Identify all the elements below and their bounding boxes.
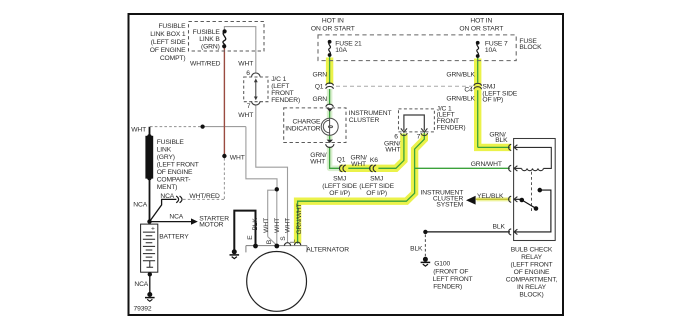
- svg-text:GRN/WHT: GRN/WHT: [471, 161, 502, 168]
- svg-text:SMJ: SMJ: [370, 176, 383, 183]
- wire GRN from fuse 21: [329, 57, 331, 85]
- svg-text:Q1: Q1: [315, 84, 324, 91]
- pin 7 cup: [252, 101, 260, 105]
- ground (alternator E): [230, 250, 240, 259]
- svg-text:BLK: BLK: [493, 224, 506, 231]
- wire junction dot to B pad strands: [268, 189, 277, 244]
- connector Q1 (GRN/WHT run): [339, 165, 345, 172]
- svg-text:CLUSTER: CLUSTER: [349, 117, 380, 124]
- svg-text:WHT: WHT: [351, 161, 366, 168]
- wire NCA dashed below WHT dot: [223, 158, 225, 199]
- svg-text:K6: K6: [370, 157, 378, 164]
- svg-text:(LEFT: (LEFT: [271, 83, 289, 90]
- svg-text:BLK: BLK: [495, 137, 508, 144]
- wire GRN/WHT main run highlight: [339, 134, 404, 169]
- svg-text:NCA: NCA: [169, 214, 183, 221]
- svg-text:OF I/P): OF I/P): [329, 190, 350, 197]
- svg-text:C4: C4: [464, 87, 473, 94]
- fusible link B symbol: [223, 31, 226, 46]
- svg-text:ON OR START: ON OR START: [459, 26, 503, 33]
- svg-text:OF ENGINE: OF ENGINE: [157, 169, 193, 176]
- junction dot battery top: [147, 219, 151, 223]
- alternator top plate: [246, 246, 307, 253]
- svg-text:WHT/RED: WHT/RED: [189, 193, 220, 200]
- svg-text:HOT IN: HOT IN: [470, 17, 492, 24]
- relay switch: [514, 188, 551, 232]
- svg-text:(LEFT SIDE: (LEFT SIDE: [151, 39, 186, 46]
- svg-text:J/C 1: J/C 1: [271, 76, 286, 83]
- svg-text:COMPART-: COMPART-: [157, 177, 191, 184]
- svg-text:FENDER): FENDER): [271, 97, 300, 104]
- wire NCA battery to starter motor: [150, 221, 192, 223]
- junction dot B wire: [275, 187, 279, 191]
- svg-text:WHT/RED: WHT/RED: [190, 60, 221, 67]
- wire BLK relay to G100: [425, 231, 510, 233]
- wire GRN cluster pale highlight: [327, 89, 333, 105]
- svg-text:MENT): MENT): [157, 184, 178, 191]
- svg-text:CHARGE: CHARGE: [292, 118, 321, 125]
- svg-text:LEFT FRONT: LEFT FRONT: [433, 276, 473, 283]
- pin 6 arrow (right jc): [401, 128, 407, 132]
- instrument cluster exit connector: [326, 140, 334, 148]
- wire SMJ dashed interface line: [336, 85, 473, 87]
- svg-text:SYSTEM: SYSTEM: [436, 202, 463, 209]
- wire GRN fuse21 to Q1 highlight: [326, 58, 333, 85]
- wire WHT battery feed to alternator B: [203, 127, 277, 189]
- alternator S cup: [284, 243, 290, 246]
- svg-text:GRN/BLK: GRN/BLK: [446, 96, 475, 103]
- svg-text:BULB CHECK: BULB CHECK: [511, 246, 553, 253]
- svg-text:(LEFT SIDE: (LEFT SIDE: [359, 183, 394, 190]
- svg-text:L: L: [290, 239, 297, 243]
- J/C 1 left internal bus with arrows: [252, 73, 260, 105]
- svg-text:INDICATOR: INDICATOR: [285, 126, 320, 133]
- svg-text:+: +: [151, 226, 155, 233]
- svg-text:BLK: BLK: [252, 218, 259, 231]
- svg-text:ON OR START: ON OR START: [311, 26, 355, 33]
- wire BLK dashed to G100: [424, 235, 426, 258]
- wire GRN/BLK fuse7 to relay highlight: [478, 59, 511, 148]
- svg-text:WHT: WHT: [238, 112, 253, 119]
- svg-text:WHT: WHT: [263, 218, 270, 233]
- junction dot on WHT wire: [201, 125, 205, 129]
- fuse 21: [329, 42, 331, 55]
- svg-text:LINK: LINK: [157, 147, 172, 154]
- svg-text:GRN/BLK: GRN/BLK: [446, 72, 475, 79]
- svg-text:(LEFT FRONT: (LEFT FRONT: [157, 162, 199, 169]
- instrument cluster box: [284, 108, 346, 143]
- J/C 1 right internal bus: [404, 115, 424, 130]
- svg-text:GRN/WHT: GRN/WHT: [296, 203, 303, 234]
- wire GRN inside cluster: [329, 111, 331, 140]
- svg-text:SMJ: SMJ: [333, 176, 346, 183]
- junction dot battery bottom: [148, 272, 152, 276]
- svg-text:NCA: NCA: [133, 201, 147, 208]
- svg-text:WHT: WHT: [274, 218, 281, 233]
- svg-text:GRN: GRN: [312, 72, 327, 79]
- wire GRN/WHT jc to L terminal: [298, 133, 425, 244]
- wire GRN/WHT branch to relay: [415, 167, 510, 169]
- svg-text:BLOCK: BLOCK: [519, 44, 542, 51]
- wire GRN Q1 to cluster: [329, 89, 331, 105]
- svg-text:10A: 10A: [485, 47, 497, 54]
- connector K6 (GRN/WHT run): [370, 165, 376, 172]
- fuse 7: [477, 43, 479, 56]
- svg-text:OF I/P): OF I/P): [482, 96, 503, 103]
- svg-text:LINK B: LINK B: [199, 36, 220, 43]
- svg-text:S: S: [280, 236, 287, 241]
- svg-text:LINK BOX 1: LINK BOX 1: [150, 31, 186, 38]
- svg-text:WHT: WHT: [131, 126, 146, 133]
- svg-text:WHT: WHT: [310, 159, 325, 166]
- svg-text:NCA: NCA: [134, 281, 148, 288]
- svg-text:G100: G100: [434, 260, 450, 267]
- wire NCA battery to crimp: [150, 199, 177, 221]
- svg-text:FENDER): FENDER): [433, 283, 462, 290]
- svg-text:FUSIBLE: FUSIBLE: [193, 29, 221, 36]
- wire GRN/BLK fuse 7 down to relay: [478, 58, 510, 148]
- svg-text:10A: 10A: [335, 47, 347, 54]
- wire YEL/BLK to instrument cluster system: [476, 198, 510, 200]
- svg-text:(GRY): (GRY): [157, 154, 175, 161]
- ground (battery): [145, 293, 155, 302]
- instrument cluster system arrow: [466, 196, 476, 205]
- wire WHT/RED dashed horizontal: [183, 198, 224, 200]
- svg-text:WHT: WHT: [385, 146, 400, 153]
- svg-text:GRN: GRN: [312, 96, 327, 103]
- svg-text:NCA: NCA: [160, 193, 174, 200]
- wire WHT dashed from fusible link GRY: [150, 126, 203, 128]
- svg-text:FUSIBLE: FUSIBLE: [157, 139, 185, 146]
- svg-text:COMPARTMENT,: COMPARTMENT,: [506, 276, 558, 283]
- battery: [141, 224, 158, 272]
- wire BLK alternator E to ground: [234, 211, 255, 250]
- svg-text:COMPT): COMPT): [160, 55, 186, 62]
- wire GRN/WHT cluster to corner: [330, 147, 340, 169]
- svg-text:MOTOR: MOTOR: [199, 222, 223, 229]
- J/C 1 box (left): [244, 77, 268, 102]
- connector C4 (GRN/BLK wire): [474, 83, 482, 89]
- svg-text:(LEFT FRONT: (LEFT FRONT: [510, 261, 552, 268]
- junction dot BLK G100: [423, 230, 427, 234]
- instrument cluster entry connector: [326, 104, 333, 111]
- svg-text:6: 6: [246, 70, 250, 77]
- charge indicator lamp: [321, 118, 338, 135]
- relay terminal connectors: [509, 144, 518, 235]
- svg-text:(FRONT OF: (FRONT OF: [433, 268, 468, 275]
- wire YEL/BLK highlight: [477, 197, 512, 201]
- relay coil circuit: [514, 147, 552, 170]
- svg-text:IN RELAY: IN RELAY: [517, 284, 547, 291]
- connector Q1 (GRN wire): [326, 83, 334, 89]
- svg-text:OF I/P): OF I/P): [366, 190, 387, 197]
- fuse block box: [318, 35, 516, 61]
- fusible link GRY bar: [145, 136, 153, 179]
- svg-text:WHT: WHT: [285, 218, 292, 233]
- alternator B pad: [274, 244, 279, 249]
- svg-text:79392: 79392: [134, 306, 152, 313]
- pin 6 cup: [252, 73, 260, 77]
- svg-text:B: B: [266, 239, 273, 244]
- junction dot WHT on brown wire: [222, 154, 226, 158]
- svg-text:BLOCK): BLOCK): [519, 291, 543, 298]
- svg-text:FUSIBLE: FUSIBLE: [158, 23, 186, 30]
- wire L-terminal run highlight: [298, 134, 425, 244]
- svg-text:7: 7: [247, 103, 251, 110]
- svg-text:(LEFT SIDE: (LEFT SIDE: [322, 183, 357, 190]
- relay dashed actuator line: [531, 172, 533, 212]
- svg-text:WHT: WHT: [238, 60, 253, 67]
- svg-text:Q1: Q1: [337, 156, 346, 163]
- svg-text:BATTERY: BATTERY: [159, 234, 189, 241]
- pin 7 arrow (right jc): [421, 128, 427, 132]
- wire GRN/WHT cluster exit pale highlight: [330, 147, 340, 168]
- svg-text:FENDER): FENDER): [437, 124, 466, 131]
- svg-text:BLK: BLK: [410, 246, 423, 253]
- svg-text:E: E: [247, 235, 254, 240]
- svg-text:OF ENGINE: OF ENGINE: [150, 47, 186, 54]
- alternator circle: [247, 252, 307, 312]
- svg-text:7: 7: [417, 133, 421, 140]
- svg-text:(GRN): (GRN): [201, 44, 220, 51]
- alternator L cup: [295, 242, 301, 245]
- svg-text:WHT: WHT: [230, 154, 245, 161]
- J/C 1 box (right): [399, 109, 435, 132]
- ground G100: [421, 257, 431, 266]
- svg-text:ALTERNATOR: ALTERNATOR: [306, 247, 349, 254]
- wire WHT from fusible link B top to J/C 1: [224, 27, 255, 73]
- svg-text:RELAY: RELAY: [521, 254, 542, 261]
- wire WHT J/C1 pin7 to alternator S: [256, 105, 288, 243]
- svg-text:YEL/BLK: YEL/BLK: [477, 193, 504, 200]
- svg-text:OF ENGINE: OF ENGINE: [514, 269, 550, 276]
- wire battery negative to ground: [149, 274, 151, 293]
- bulb check relay box: [514, 139, 556, 241]
- svg-text:HOT IN: HOT IN: [322, 17, 344, 24]
- wire GRN/WHT Q1-K6 run: [348, 134, 404, 169]
- svg-text:FRONT: FRONT: [271, 90, 293, 97]
- wire fusible link GRY to battery: [149, 127, 151, 222]
- fusible link box 1: [189, 22, 265, 52]
- alternator E pad: [253, 244, 258, 249]
- crimp splice symbol: [176, 196, 182, 203]
- starter motor arrow: [191, 218, 198, 224]
- wire WHT/RED brown vertical: [223, 47, 225, 156]
